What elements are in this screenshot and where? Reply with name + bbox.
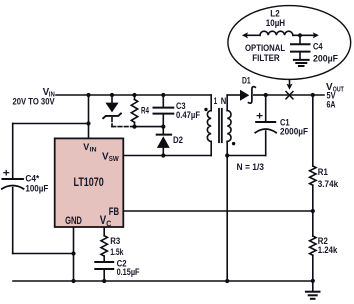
svg-text:10µH: 10µH (266, 18, 285, 28)
svg-text:0.47µF: 0.47µF (176, 109, 200, 120)
svg-text:6A: 6A (327, 100, 336, 110)
svg-text:2000µF: 2000µF (280, 126, 308, 137)
svg-text:200µF: 200µF (313, 53, 338, 63)
svg-text:FB: FB (109, 206, 119, 218)
svg-text:V: V (83, 142, 89, 152)
svg-text:0.15µF: 0.15µF (117, 267, 140, 278)
svg-text:FILTER: FILTER (252, 53, 280, 63)
svg-text:C4: C4 (313, 42, 323, 52)
svg-text:3.74k: 3.74k (318, 179, 339, 190)
svg-text:R3: R3 (110, 236, 120, 247)
svg-text:1.24k: 1.24k (318, 245, 338, 256)
svg-text:100µF: 100µF (25, 182, 48, 193)
svg-text:+: + (256, 111, 263, 123)
svg-text:C: C (106, 219, 111, 228)
svg-text:LT1070: LT1070 (74, 177, 104, 189)
svg-text:SW: SW (109, 156, 119, 163)
svg-text:R1: R1 (318, 167, 329, 178)
svg-text:D1: D1 (242, 76, 251, 86)
svg-text:1.5k: 1.5k (110, 247, 124, 258)
svg-text:GND: GND (65, 215, 82, 227)
svg-text:D2: D2 (173, 135, 183, 145)
svg-text:R4: R4 (141, 106, 149, 116)
svg-text:N = 1/3: N = 1/3 (237, 162, 265, 172)
svg-text:N: N (221, 96, 227, 106)
svg-text:+: + (3, 168, 10, 180)
svg-text:OPTIONAL: OPTIONAL (245, 43, 286, 53)
svg-text:L2: L2 (270, 8, 279, 18)
svg-text:1: 1 (214, 96, 217, 106)
svg-text:20V TO 30V: 20V TO 30V (13, 96, 55, 106)
svg-text:IN: IN (90, 146, 97, 153)
